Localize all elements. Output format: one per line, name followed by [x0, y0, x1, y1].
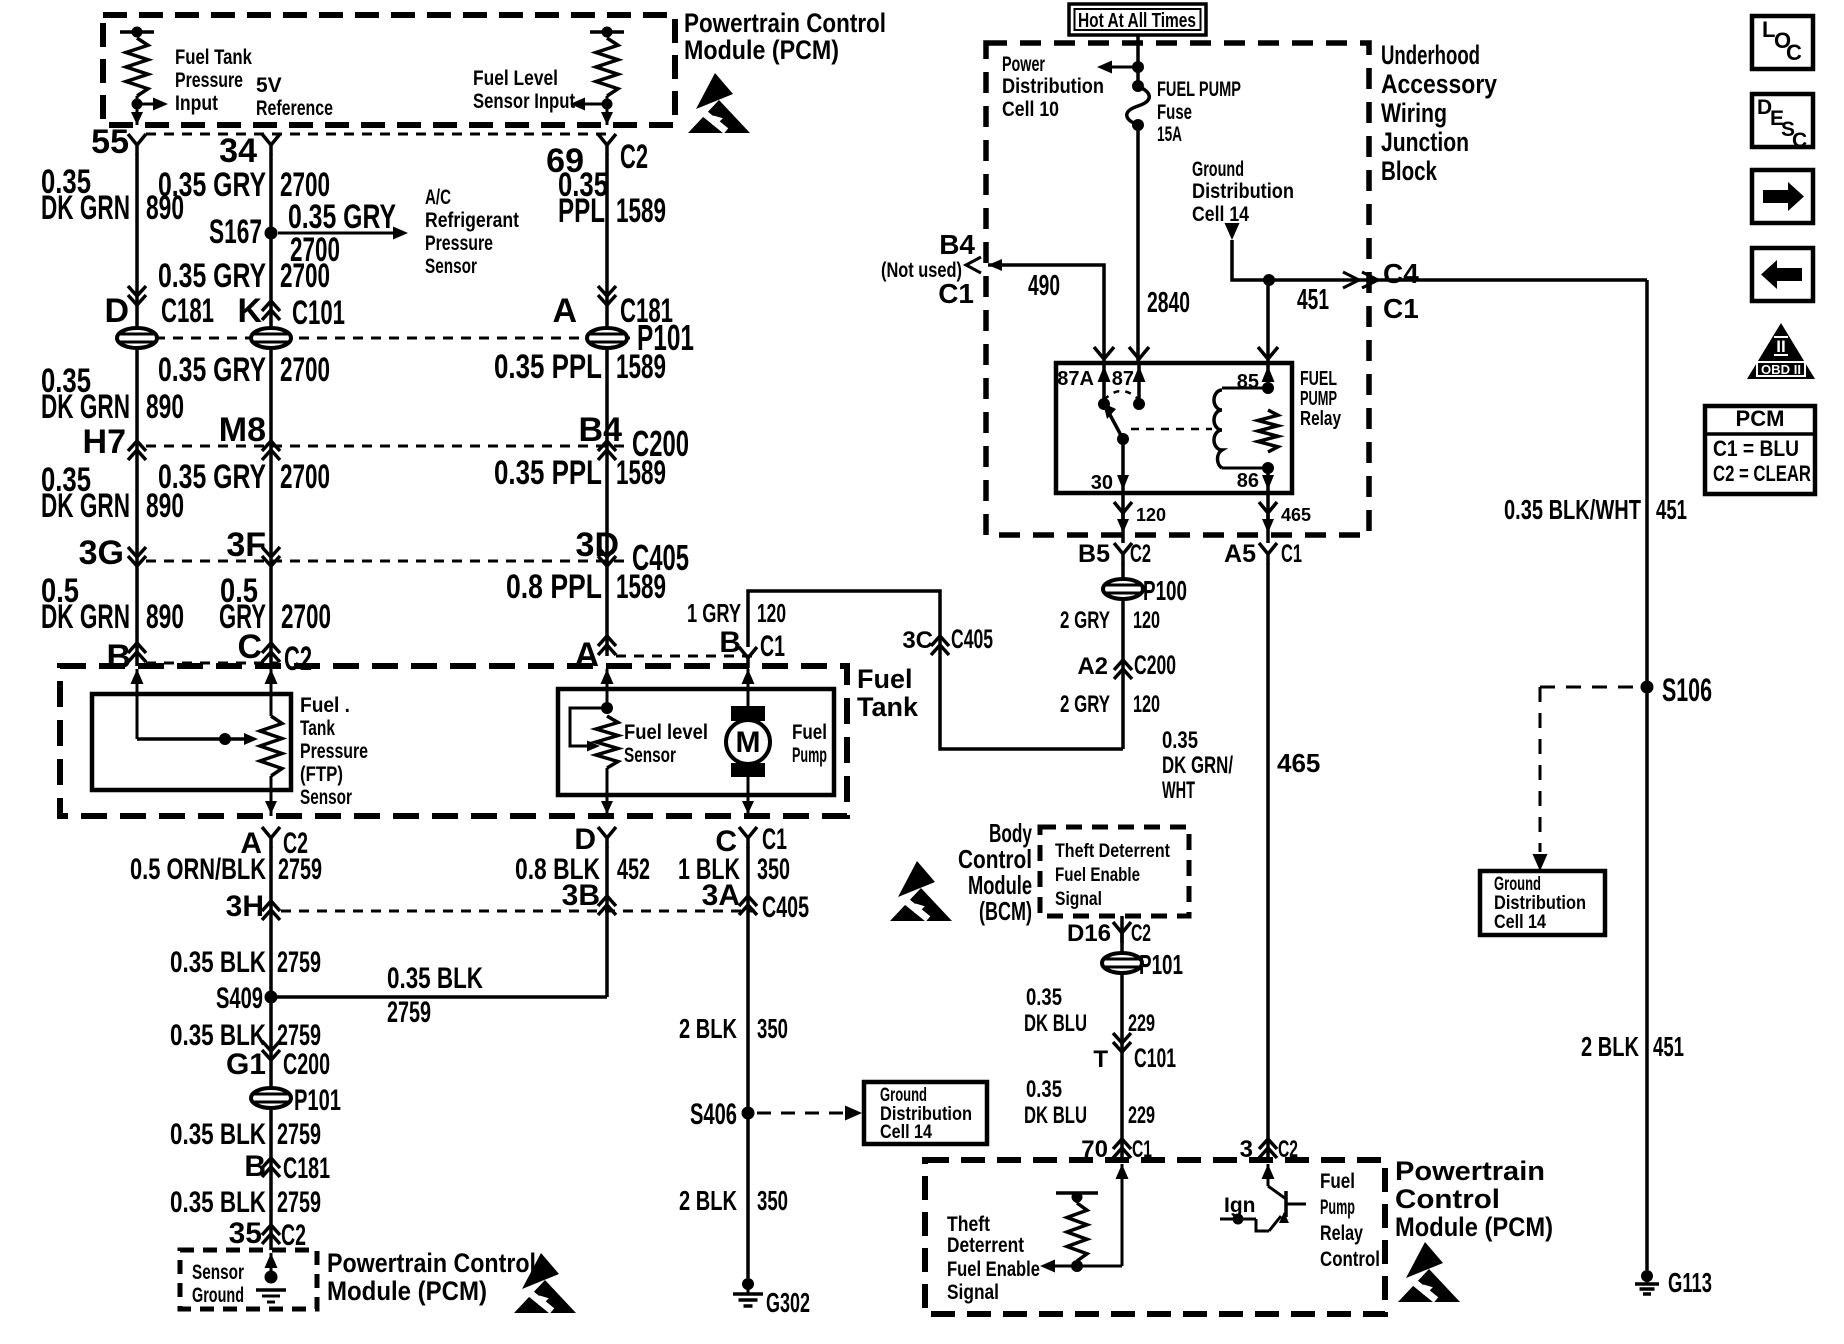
svg-text:T: T — [1093, 1046, 1108, 1073]
svg-text:S409: S409 — [216, 982, 263, 1015]
svg-text:OBD II: OBD II — [1761, 362, 1801, 377]
svg-text:Fuel Level: Fuel Level — [473, 67, 558, 90]
svg-text:A/C: A/C — [425, 186, 451, 209]
svg-text:Fuel: Fuel — [857, 664, 913, 694]
svg-text:35: 35 — [229, 1217, 262, 1250]
svg-text:55: 55 — [91, 123, 129, 161]
svg-text:3G: 3G — [79, 534, 124, 572]
svg-text:C1: C1 — [1281, 540, 1302, 568]
svg-text:Fuel Enable: Fuel Enable — [1055, 865, 1140, 886]
svg-text:B: B — [244, 1150, 266, 1183]
svg-text:S106: S106 — [1662, 672, 1712, 708]
svg-text:FUEL: FUEL — [1300, 368, 1337, 390]
svg-text:D: D — [574, 823, 596, 856]
svg-text:2759: 2759 — [278, 853, 322, 886]
svg-text:Sensor Input: Sensor Input — [473, 90, 575, 113]
svg-text:Refrigerant: Refrigerant — [425, 209, 519, 232]
svg-text:3F: 3F — [226, 526, 266, 564]
svg-text:C2: C2 — [620, 138, 648, 176]
svg-text:Fuel .: Fuel . — [300, 694, 350, 717]
svg-text:M: M — [736, 726, 761, 759]
svg-text:DK GRN/: DK GRN/ — [1162, 752, 1233, 779]
svg-text:C2: C2 — [1131, 920, 1151, 947]
svg-text:C200: C200 — [283, 1048, 330, 1081]
svg-text:Powertrain Control: Powertrain Control — [684, 8, 886, 38]
svg-text:C2 = CLEAR: C2 = CLEAR — [1713, 461, 1811, 486]
svg-text:1 GRY: 1 GRY — [687, 598, 741, 628]
svg-text:1589: 1589 — [616, 568, 666, 606]
svg-text:C2: C2 — [284, 640, 312, 678]
svg-text:Theft: Theft — [947, 1213, 990, 1236]
svg-text:3B: 3B — [562, 879, 600, 912]
svg-text:C: C — [237, 628, 262, 666]
svg-text:34: 34 — [219, 132, 257, 170]
svg-text:890: 890 — [146, 388, 184, 426]
svg-text:Sensor: Sensor — [425, 255, 477, 278]
svg-text:350: 350 — [757, 853, 790, 886]
svg-text:G1: G1 — [226, 1048, 266, 1081]
svg-text:229: 229 — [1128, 1010, 1155, 1037]
svg-text:C1: C1 — [760, 630, 785, 663]
svg-text:Signal: Signal — [1055, 889, 1102, 910]
svg-text:0.35: 0.35 — [1026, 1076, 1062, 1103]
svg-text:2 GRY: 2 GRY — [1060, 691, 1110, 718]
svg-text:D16: D16 — [1067, 920, 1111, 947]
svg-text:Fuel level: Fuel level — [624, 721, 708, 744]
svg-text:Fuel: Fuel — [1320, 1170, 1355, 1193]
svg-text:0.35 BLK: 0.35 BLK — [170, 946, 266, 979]
svg-text:3D: 3D — [576, 526, 619, 564]
svg-text:0.35 BLK: 0.35 BLK — [170, 1186, 266, 1219]
svg-text:87A: 87A — [1057, 368, 1094, 390]
svg-text:Signal: Signal — [947, 1281, 999, 1304]
svg-text:85: 85 — [1237, 371, 1259, 393]
svg-text:P100: P100 — [1143, 575, 1187, 606]
svg-text:C101: C101 — [292, 294, 345, 332]
svg-text:C405: C405 — [951, 624, 993, 654]
svg-text:Pump: Pump — [792, 744, 827, 767]
svg-text:Ground: Ground — [1494, 874, 1541, 895]
svg-text:120: 120 — [757, 598, 786, 628]
svg-text:Pump: Pump — [1320, 1196, 1355, 1219]
svg-text:P101: P101 — [1139, 949, 1183, 980]
svg-text:DK GRN: DK GRN — [41, 189, 130, 227]
svg-text:C181: C181 — [283, 1152, 330, 1185]
svg-text:350: 350 — [757, 1185, 788, 1216]
svg-text:C4: C4 — [1383, 258, 1419, 289]
svg-text:Pressure: Pressure — [300, 740, 368, 763]
svg-text:0.35 GRY: 0.35 GRY — [158, 458, 266, 496]
svg-text:C181: C181 — [161, 292, 214, 330]
svg-text:B4: B4 — [939, 229, 975, 260]
svg-text:C1: C1 — [762, 823, 787, 856]
svg-text:2 BLK: 2 BLK — [679, 1013, 737, 1044]
svg-text:WHT: WHT — [1162, 777, 1195, 804]
svg-text:2700: 2700 — [280, 351, 330, 389]
svg-text:C101: C101 — [1134, 1043, 1176, 1073]
svg-text:Junction: Junction — [1381, 127, 1469, 157]
svg-text:FUEL PUMP: FUEL PUMP — [1157, 78, 1241, 101]
svg-text:S406: S406 — [690, 1098, 737, 1131]
svg-text:DK GRN: DK GRN — [41, 598, 130, 636]
svg-text:0.35 BLK/WHT: 0.35 BLK/WHT — [1504, 494, 1641, 525]
svg-text:G302: G302 — [766, 1287, 810, 1318]
svg-text:C2: C2 — [281, 1219, 306, 1252]
svg-text:A2: A2 — [1077, 653, 1108, 680]
svg-text:(FTP): (FTP) — [300, 763, 343, 786]
svg-text:451: 451 — [1656, 494, 1687, 525]
svg-text:Module (PCM): Module (PCM) — [1395, 1212, 1553, 1242]
svg-text:C: C — [1786, 40, 1802, 65]
svg-text:2759: 2759 — [387, 996, 431, 1029]
svg-text:2840: 2840 — [1147, 287, 1190, 319]
svg-text:2759: 2759 — [277, 946, 321, 979]
svg-text:2 BLK: 2 BLK — [679, 1185, 737, 1216]
svg-text:Block: Block — [1381, 156, 1438, 186]
svg-text:15A: 15A — [1157, 123, 1182, 146]
svg-text:3C: 3C — [902, 627, 933, 654]
svg-text:PPL: PPL — [558, 192, 605, 230]
svg-text:A: A — [574, 636, 599, 674]
svg-text:Ground: Ground — [192, 1284, 244, 1307]
svg-text:Relay: Relay — [1320, 1222, 1363, 1245]
svg-text:1589: 1589 — [616, 348, 666, 386]
svg-text:451: 451 — [1653, 1031, 1684, 1062]
svg-text:Pressure: Pressure — [175, 69, 243, 92]
svg-text:2700: 2700 — [280, 458, 330, 496]
svg-text:0.35 PPL: 0.35 PPL — [494, 348, 602, 386]
svg-text:C1: C1 — [938, 278, 974, 309]
svg-text:Distribution: Distribution — [1192, 180, 1294, 203]
svg-text:229: 229 — [1128, 1102, 1155, 1129]
svg-text:Module (PCM): Module (PCM) — [327, 1276, 487, 1306]
svg-text:Cell 14: Cell 14 — [880, 1122, 932, 1143]
svg-text:Theft Deterrent: Theft Deterrent — [1055, 841, 1171, 862]
svg-text:Fuel Tank: Fuel Tank — [175, 46, 252, 69]
svg-text:0.35 GRY: 0.35 GRY — [158, 166, 266, 204]
svg-text:2 BLK: 2 BLK — [1581, 1031, 1639, 1062]
svg-text:0.35 GRY: 0.35 GRY — [158, 351, 266, 389]
svg-text:DK BLU: DK BLU — [1024, 1102, 1087, 1129]
svg-text:Cell 14: Cell 14 — [1192, 203, 1249, 226]
svg-text:Fuel Enable: Fuel Enable — [947, 1258, 1040, 1281]
svg-text:Control: Control — [1395, 1184, 1500, 1214]
svg-text:DK BLU: DK BLU — [1024, 1010, 1087, 1037]
svg-text:S167: S167 — [209, 213, 262, 251]
svg-text:H7: H7 — [83, 423, 126, 461]
svg-text:120: 120 — [1136, 505, 1166, 525]
svg-text:0.35 GRY: 0.35 GRY — [158, 257, 266, 295]
svg-text:Wiring: Wiring — [1381, 98, 1447, 128]
svg-text:Underhood: Underhood — [1381, 40, 1480, 70]
svg-text:Pressure: Pressure — [425, 232, 493, 255]
svg-text:5V: 5V — [256, 74, 282, 97]
svg-text:B: B — [719, 626, 741, 659]
svg-text:Power: Power — [1002, 53, 1045, 76]
svg-text:P101: P101 — [294, 1084, 341, 1117]
svg-text:C1: C1 — [1383, 293, 1419, 324]
svg-text:490: 490 — [1028, 270, 1060, 302]
svg-text:Accessory: Accessory — [1381, 69, 1497, 99]
svg-text:3A: 3A — [702, 879, 740, 912]
svg-text:C2: C2 — [1130, 540, 1151, 568]
svg-text:G113: G113 — [1668, 1267, 1712, 1298]
svg-text:Sensor: Sensor — [300, 786, 352, 809]
svg-text:PCM: PCM — [1736, 406, 1785, 431]
svg-text:452: 452 — [617, 853, 650, 886]
svg-text:350: 350 — [757, 1013, 788, 1044]
svg-text:451: 451 — [1297, 284, 1329, 316]
svg-text:DK GRN: DK GRN — [41, 487, 130, 525]
svg-text:2700: 2700 — [281, 598, 331, 636]
svg-text:2759: 2759 — [277, 1186, 321, 1219]
svg-text:PUMP: PUMP — [1300, 388, 1337, 410]
svg-text:Distribution: Distribution — [1494, 893, 1586, 914]
svg-text:0.35 PPL: 0.35 PPL — [494, 454, 602, 492]
svg-text:Deterrent: Deterrent — [947, 1234, 1024, 1257]
svg-text:Tank: Tank — [857, 692, 919, 722]
svg-text:B4: B4 — [579, 411, 623, 449]
svg-text:C200: C200 — [1134, 650, 1176, 680]
svg-text:Cell 14: Cell 14 — [1494, 912, 1546, 933]
svg-text:II: II — [1776, 337, 1785, 356]
svg-text:Powertrain: Powertrain — [1395, 1156, 1545, 1186]
svg-text:C: C — [1792, 129, 1807, 152]
svg-text:C405: C405 — [762, 891, 809, 924]
svg-text:Input: Input — [175, 92, 218, 115]
svg-text:2 GRY: 2 GRY — [1060, 607, 1110, 634]
svg-text:C1 = BLU: C1 = BLU — [1713, 436, 1799, 461]
svg-text:1589: 1589 — [616, 192, 666, 230]
svg-text:2759: 2759 — [277, 1118, 321, 1151]
svg-text:87: 87 — [1112, 368, 1134, 390]
svg-text:Relay: Relay — [1300, 408, 1342, 430]
svg-text:B5: B5 — [1078, 540, 1110, 568]
svg-text:Sensor: Sensor — [192, 1261, 244, 1284]
svg-text:Sensor: Sensor — [624, 744, 676, 767]
svg-text:Fuse: Fuse — [1157, 101, 1192, 124]
svg-text:86: 86 — [1237, 470, 1259, 492]
svg-text:120: 120 — [1133, 607, 1160, 634]
svg-text:A: A — [552, 292, 577, 330]
svg-text:890: 890 — [146, 598, 184, 636]
svg-text:Cell 10: Cell 10 — [1002, 98, 1059, 121]
svg-text:465: 465 — [1277, 748, 1320, 778]
svg-text:0.35 BLK: 0.35 BLK — [387, 962, 483, 995]
svg-text:0.5 ORN/BLK: 0.5 ORN/BLK — [130, 853, 266, 886]
svg-text:K: K — [237, 292, 262, 330]
svg-text:0.35 BLK: 0.35 BLK — [170, 1118, 266, 1151]
svg-text:Ign: Ign — [1224, 1194, 1256, 1217]
svg-text:D: D — [104, 292, 129, 330]
svg-text:M8: M8 — [219, 411, 266, 449]
svg-text:Hot At All Times: Hot At All Times — [1078, 10, 1196, 32]
svg-text:0.35: 0.35 — [1162, 727, 1198, 754]
svg-text:0.35: 0.35 — [1026, 984, 1062, 1011]
svg-text:1589: 1589 — [616, 454, 666, 492]
svg-text:A5: A5 — [1224, 540, 1256, 568]
svg-text:B: B — [106, 638, 131, 676]
svg-text:Fuel: Fuel — [792, 721, 827, 744]
svg-text:465: 465 — [1281, 505, 1311, 525]
svg-text:Ground: Ground — [880, 1085, 927, 1106]
svg-text:120: 120 — [1133, 691, 1160, 718]
svg-text:Reference: Reference — [256, 97, 333, 120]
svg-text:Powertrain Control: Powertrain Control — [327, 1248, 536, 1278]
svg-text:2700: 2700 — [280, 257, 330, 295]
svg-text:Distribution: Distribution — [1002, 75, 1104, 98]
svg-text:Control: Control — [1320, 1248, 1380, 1271]
svg-text:0.8 PPL: 0.8 PPL — [506, 568, 602, 606]
svg-text:Ground: Ground — [1192, 158, 1244, 181]
svg-text:(BCM): (BCM) — [979, 896, 1032, 926]
svg-text:DK GRN: DK GRN — [41, 388, 130, 426]
svg-text:Tank: Tank — [300, 717, 335, 740]
svg-text:30: 30 — [1091, 472, 1113, 494]
svg-text:3H: 3H — [226, 890, 264, 923]
svg-text:Module (PCM): Module (PCM) — [684, 35, 839, 65]
